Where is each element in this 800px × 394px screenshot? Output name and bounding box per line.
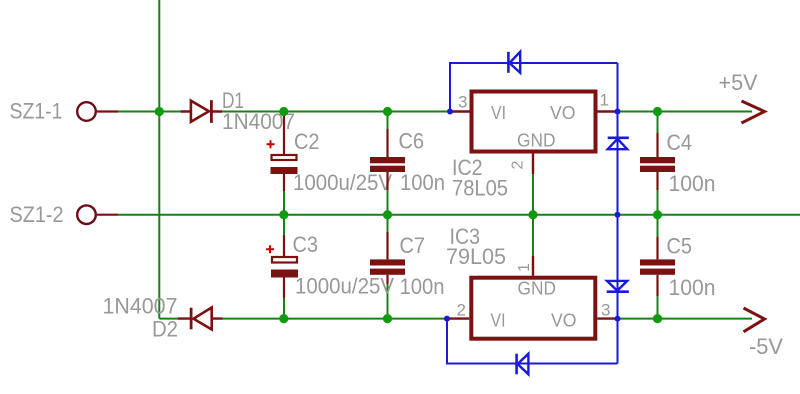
wire C4 leads [657, 112, 659, 215]
capacitor C6 (100n) [370, 129, 405, 190]
svg-text:2: 2 [510, 161, 527, 170]
terminal SZ1-2 [77, 205, 118, 224]
diode blue bottom bypass [517, 354, 529, 375]
capacitor C3 (electrolytic 1000u/25V) [266, 235, 298, 298]
svg-text:79L05: 79L05 [446, 244, 506, 269]
capacitor C5 (100n) [640, 237, 675, 296]
diode blue lower output clamp [607, 281, 629, 292]
junction C2/C3 mid [279, 210, 288, 219]
wire vertical input bus [158, 0, 160, 319]
svg-text:C2: C2 [294, 129, 320, 154]
junction C5 bottom [653, 314, 662, 323]
svg-text:1N4007: 1N4007 [103, 294, 178, 319]
arrow -5V output [744, 308, 765, 332]
wire blue top bypass loop [450, 63, 618, 112]
svg-text:GND: GND [518, 279, 557, 299]
wire blue bottom bypass loop [447, 319, 618, 364]
wire GND column [532, 174, 534, 256]
svg-text:3: 3 [458, 93, 467, 112]
terminal SZ1-1 [77, 102, 118, 121]
junction C2 top [279, 107, 288, 116]
svg-text:C3: C3 [293, 232, 319, 257]
wire C3 leads [283, 215, 285, 319]
svg-text:1000u/25V: 1000u/25V [295, 274, 394, 299]
junction blue IC3 VO node [615, 316, 621, 322]
junction blue IC2 VO node [615, 109, 621, 115]
wire blue right vertical [617, 63, 619, 364]
wire C5 leads [657, 215, 659, 319]
svg-text:+5V: +5V [719, 70, 758, 95]
svg-text:78L05: 78L05 [452, 176, 508, 201]
svg-text:VI: VI [491, 103, 506, 123]
svg-text:3: 3 [601, 301, 610, 320]
svg-text:100n: 100n [400, 170, 445, 195]
arrow +5V output [742, 101, 765, 123]
junction blue IC3 VI node [444, 316, 450, 322]
svg-text:VO: VO [551, 310, 577, 330]
svg-text:GND: GND [517, 131, 556, 151]
wire middle rail [118, 214, 800, 216]
diode D2 [178, 308, 223, 330]
regulator IC2 78L05 body [450, 92, 618, 175]
junction C3 bottom [279, 314, 288, 323]
regulator IC3 79L05 body [447, 256, 618, 339]
wire C2 lower lead [283, 191, 285, 215]
svg-text:1000u/25V: 1000u/25V [293, 170, 392, 195]
svg-text:1: 1 [516, 263, 533, 272]
wire C7 leads [387, 215, 389, 319]
junction C7 bottom [383, 314, 392, 323]
svg-text:C7: C7 [400, 233, 426, 258]
wire C6 leads [387, 112, 389, 215]
capacitor C2 (electrolytic 1000u/25V) [267, 114, 298, 192]
junction C6/C7 mid [383, 210, 392, 219]
junction blue GND rail crossing [615, 212, 621, 218]
svg-text:100n: 100n [669, 275, 716, 300]
junction C6 top [383, 107, 392, 116]
svg-text:SZ1-1: SZ1-1 [10, 99, 63, 124]
svg-text:100n: 100n [669, 171, 716, 196]
junction blue IC2 VI node [447, 109, 453, 115]
svg-text:C6: C6 [399, 129, 425, 154]
wire top rail [118, 111, 752, 113]
capacitor C4 (100n) [640, 133, 675, 190]
diode blue top bypass [508, 52, 520, 73]
svg-text:2: 2 [457, 301, 466, 320]
svg-text:1: 1 [600, 91, 609, 110]
svg-text:100n: 100n [400, 274, 445, 299]
svg-text:VI: VI [491, 310, 506, 330]
svg-text:SZ1-2: SZ1-2 [10, 202, 64, 227]
junction C4 top [653, 107, 662, 116]
diode blue upper output clamp [608, 138, 629, 149]
capacitor C7 (100n) [370, 232, 405, 284]
junction C4/C5 mid [653, 210, 662, 219]
diode D1 [181, 100, 223, 123]
svg-text:C5: C5 [667, 234, 693, 259]
svg-text:VO: VO [550, 103, 576, 123]
svg-text:-5V: -5V [749, 334, 783, 359]
wire bottom rail [159, 318, 752, 320]
junction GND column mid [528, 210, 537, 219]
svg-text:D2: D2 [152, 317, 178, 342]
junction input bus / top rail [155, 107, 164, 116]
svg-text:C4: C4 [667, 130, 693, 155]
